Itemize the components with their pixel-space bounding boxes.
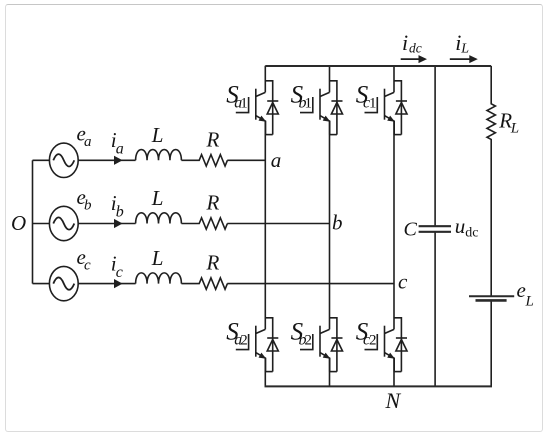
svg-text:L: L bbox=[151, 246, 164, 270]
svg-text:b: b bbox=[84, 198, 92, 214]
svg-text:R: R bbox=[206, 251, 220, 275]
svg-text:b: b bbox=[332, 211, 343, 235]
svg-text:2: 2 bbox=[305, 333, 313, 349]
svg-text:L: L bbox=[460, 42, 469, 57]
svg-text:O: O bbox=[11, 211, 26, 235]
svg-text:a: a bbox=[271, 148, 282, 172]
svg-text:a: a bbox=[84, 134, 92, 150]
svg-text:1: 1 bbox=[305, 96, 313, 112]
svg-text:c: c bbox=[84, 258, 91, 274]
svg-text:R: R bbox=[206, 191, 220, 215]
svg-text:R: R bbox=[206, 127, 220, 151]
svg-text:c: c bbox=[398, 270, 408, 294]
svg-text:u: u bbox=[455, 214, 466, 238]
svg-text:a: a bbox=[116, 141, 124, 158]
svg-text:1: 1 bbox=[240, 96, 248, 112]
svg-text:L: L bbox=[510, 121, 519, 137]
svg-text:C: C bbox=[404, 218, 418, 240]
svg-text:2: 2 bbox=[369, 333, 377, 349]
svg-text:e: e bbox=[517, 278, 526, 302]
svg-text:b: b bbox=[116, 204, 124, 221]
svg-text:i: i bbox=[402, 30, 408, 55]
svg-text:dc: dc bbox=[465, 225, 478, 240]
svg-text:c: c bbox=[116, 264, 123, 281]
svg-text:N: N bbox=[385, 388, 402, 413]
svg-text:L: L bbox=[151, 123, 164, 147]
svg-text:L: L bbox=[151, 186, 164, 210]
svg-text:L: L bbox=[525, 294, 534, 310]
svg-text:1: 1 bbox=[369, 96, 377, 112]
svg-text:dc: dc bbox=[409, 40, 422, 55]
svg-text:2: 2 bbox=[240, 333, 248, 349]
